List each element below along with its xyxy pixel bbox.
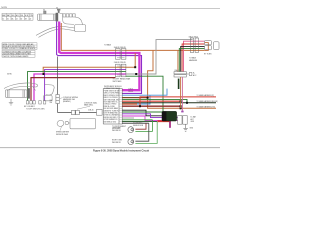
svg-text:SENSOR 65A-3: SENSOR 65A-3	[56, 133, 68, 136]
svg-text:12: 12	[2, 18, 4, 20]
black wire to box	[122, 110, 162, 116]
magenta wire bottom	[122, 116, 177, 120]
indicator lamp 2	[128, 139, 134, 145]
ground symbol left	[9, 99, 13, 105]
indicator lamp 1	[128, 127, 134, 133]
red segment and purple drop	[158, 121, 171, 127]
below connector: dark green stub	[178, 79, 180, 89]
svg-text:34A-4 34B-4: 34A-4 34B-4	[189, 35, 199, 38]
svg-text:LEFT TURN: LEFT TURN	[112, 128, 122, 130]
left grip cylinder	[6, 90, 28, 98]
svg-text:PK/BE IGNITION SW: PK/BE IGNITION SW	[104, 91, 120, 93]
svg-text:BK V GN BN R: BK V GN BN R	[24, 106, 36, 108]
junction dots mid	[43, 73, 45, 75]
lamp band risers	[135, 123, 146, 129]
violet wire	[122, 114, 177, 118]
orange loop at right blocks	[205, 43, 209, 51]
top right corner bundle: pink wire	[184, 41, 205, 71]
svg-text:GY/W DIMMER FD: GY/W DIMMER FD	[104, 119, 119, 121]
connector bar on grip	[56, 13, 59, 22]
magenta wire left bundle	[34, 74, 126, 101]
pink vertical with end cap	[181, 77, 183, 111]
violet wire left bundle	[45, 69, 126, 100]
svg-text:HI B: HI B	[25, 15, 28, 17]
svg-text:20: 20	[29, 18, 31, 20]
svg-text:22A-2B 22B-2B: 22A-2B 22B-2B	[114, 61, 127, 64]
legend table A	[2, 13, 33, 20]
svg-text:MAIN 33B-1: MAIN 33B-1	[84, 104, 93, 107]
black wire to edge	[122, 102, 216, 104]
svg-text:21B-16: 21B-16	[128, 91, 133, 93]
top right connector tall rects	[190, 38, 198, 52]
text above lamp band	[128, 88, 133, 93]
ignition switch symbol	[56, 95, 59, 104]
svg-text:RT TURN: RT TURN	[204, 54, 212, 56]
svg-text:(BEHIND): (BEHIND)	[63, 101, 71, 103]
left pod outline	[44, 85, 55, 101]
junction dots right	[147, 97, 149, 99]
green wire	[179, 49, 204, 72]
red wire mid	[122, 100, 180, 102]
svg-text:BN/GY OIL PRESS: BN/GY OIL PRESS	[104, 97, 118, 99]
orange wire left bundle	[43, 53, 135, 74]
gray wire from conn2 up riser	[126, 40, 193, 74]
maroon wire bottom	[122, 105, 180, 107]
svg-text:SENSOR 65B: SENSOR 65B	[133, 125, 143, 127]
dark component box	[162, 111, 177, 121]
brown wire	[122, 97, 147, 99]
inline connector lower right	[174, 72, 186, 77]
red wire to edge	[140, 97, 216, 106]
svg-text:30: 30	[20, 18, 22, 20]
svg-text:38: 38	[25, 18, 27, 20]
terminal row under left switch	[26, 101, 46, 104]
svg-text:HARNESS: HARNESS	[189, 59, 198, 62]
svg-text:BE/GY SPEEDO SIG: BE/GY SPEEDO SIG	[104, 95, 120, 97]
main instrument connector	[103, 89, 122, 125]
orange from switch	[61, 23, 205, 50]
svg-text:INSTRUMENT MODULE: INSTRUMENT MODULE	[104, 86, 122, 88]
bright green wire to lamp1	[122, 119, 152, 121]
svg-text:BK/GN GROUND 2: BK/GN GROUND 2	[104, 117, 118, 119]
orange wire into corner down	[177, 50, 179, 71]
inline connector 28 (conn1)	[116, 49, 126, 60]
terminal to right of connector	[186, 72, 192, 75]
legend table B	[2, 43, 37, 50]
maroon wire left bundle	[31, 78, 116, 101]
svg-text:21A 21B TURN SIGNAL LAMPS: 21A 21B TURN SIGNAL LAMPS	[3, 55, 30, 58]
small connector bottom right	[178, 116, 188, 125]
svg-text:R/BK B+ FUSE: R/BK B+ FUSE	[104, 106, 115, 108]
svg-text:TO MAIN: TO MAIN	[104, 44, 112, 47]
switch housing outline	[36, 14, 86, 38]
svg-text:Figure 8-30. 2008 Dyna Models: Figure 8-30. 2008 Dyna Models Instrument…	[93, 150, 149, 153]
orange branch down	[148, 50, 216, 108]
svg-text:V/BN LT TURN FEED: V/BN LT TURN FEED	[104, 93, 120, 95]
right switch wire bundle vertical: purple	[57, 22, 142, 94]
inline connector conn2	[116, 64, 126, 77]
green wire to box	[122, 111, 163, 113]
svg-text:36 HD: 36 HD	[7, 74, 13, 76]
dark green wire to lamp2	[122, 121, 157, 123]
red wire	[182, 44, 204, 72]
green wire left bundle	[28, 72, 127, 101]
svg-text:GN/BN RT TURN FD: GN/BN RT TURN FD	[104, 110, 120, 112]
svg-text:SWITCHES: SWITCHES	[113, 81, 123, 83]
green wire to right	[122, 99, 187, 102]
green wire right of conn2 to box riser	[126, 76, 163, 111]
orange vertical to tan junction	[180, 77, 182, 108]
footer rule	[0, 147, 220, 149]
right grip cylinder	[38, 14, 58, 20]
ground symbol right	[183, 124, 187, 131]
top rule	[0, 8, 220, 10]
black wire	[181, 46, 205, 71]
svg-text:R RED V VIOLET O ORANGE W WHIT: R RED V VIOLET O ORANGE W WHITE	[3, 47, 37, 50]
inline connector on ignition line	[72, 110, 80, 114]
gray wire stub	[122, 117, 134, 119]
black wire to lamp2	[122, 122, 149, 124]
speedometer sensor bottom-left	[56, 118, 95, 128]
svg-text:RIGHT TURN: RIGHT TURN	[112, 140, 123, 142]
bracket left of big connector	[97, 109, 103, 115]
svg-text:20A-2B 20B-2B: 20A-2B 20B-2B	[114, 46, 127, 49]
svg-text:TO LEFT SWITCH CONN: TO LEFT SWITCH CONN	[26, 108, 45, 110]
magenta thick	[59, 22, 139, 91]
legend table C	[2, 50, 35, 57]
svg-text:B+: B+	[193, 73, 195, 75]
ignition line	[58, 57, 97, 113]
svg-text:BK SHIELD GND: BK SHIELD GND	[104, 121, 117, 123]
svg-text:21B-16: 21B-16	[88, 109, 94, 111]
connector bar left grip	[27, 88, 30, 98]
right small blocks	[205, 41, 220, 50]
svg-text:22: 22	[16, 18, 18, 20]
left handlebar assembly: clutch lever	[4, 83, 38, 91]
blue wire	[122, 89, 167, 96]
svg-text:16: 16	[7, 18, 9, 20]
right edge labels	[197, 94, 219, 108]
